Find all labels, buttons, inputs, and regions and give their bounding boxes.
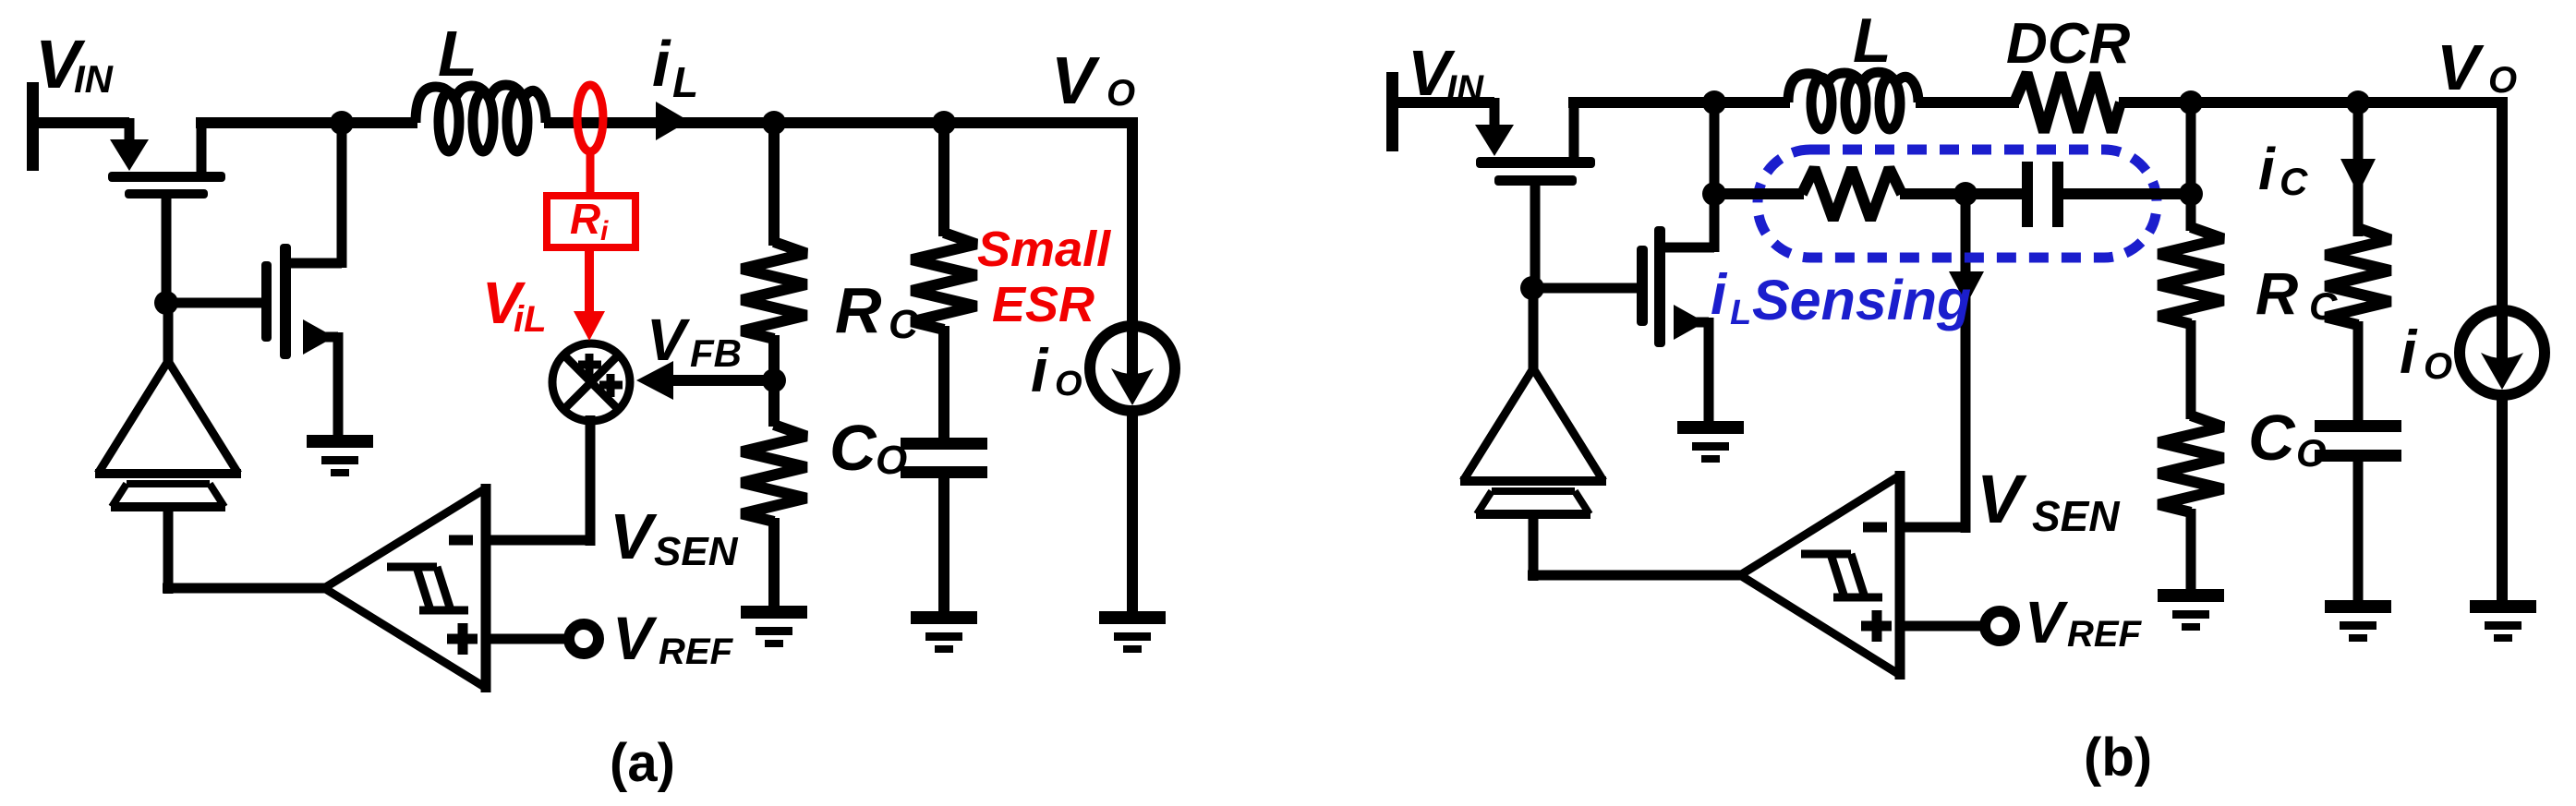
wire comparator out to driver (a) xyxy=(163,510,174,594)
ground NMOS (a) xyxy=(307,435,373,476)
wire RC branch top (b) xyxy=(2353,102,2364,236)
inductor L (a) xyxy=(416,85,546,151)
arrow iL on rail (a) xyxy=(656,102,689,140)
wire NMOS gate (a) xyxy=(166,298,266,308)
svg-text:Small: Small xyxy=(977,222,1111,277)
svg-text:(a): (a) xyxy=(610,733,675,793)
arrow NMOS source (b) xyxy=(1674,305,1705,340)
svg-text:V: V xyxy=(612,604,658,672)
svg-text:i: i xyxy=(2258,136,2276,202)
node RC branch junction (a) xyxy=(932,111,956,135)
wire minus input (a) xyxy=(481,535,590,546)
svg-text:O: O xyxy=(1055,365,1082,403)
node sense VSEN junction (b) xyxy=(1953,182,1977,206)
transistor M1 PMOS (b) xyxy=(1476,157,1595,186)
wire switch rail left (a) xyxy=(196,117,417,128)
inductor L (b) xyxy=(1788,72,1918,129)
node sense to divider junction (b) xyxy=(2179,182,2203,206)
wire driver output up to gate node (b) xyxy=(1529,292,1539,371)
wire plus input to VREF (a) xyxy=(481,634,565,644)
wire VIN to switch (b) xyxy=(1397,97,1494,108)
current source iO (b) xyxy=(2460,310,2545,395)
svg-text:FB: FB xyxy=(690,331,742,375)
terminal VREF (b) xyxy=(1985,611,2014,641)
wire sense right (b) xyxy=(2062,188,2191,199)
node VIN terminal (b) xyxy=(1386,72,1398,151)
svg-text:C: C xyxy=(2280,160,2308,203)
svg-text:L: L xyxy=(672,58,698,106)
svg-text:DCR: DCR xyxy=(2006,12,2131,76)
resistor DCR (b) xyxy=(2014,73,2121,132)
svg-text:O: O xyxy=(2424,346,2452,387)
red sense Ri box (a) xyxy=(547,196,635,247)
svg-text:V: V xyxy=(2437,31,2485,103)
svg-text:REF: REF xyxy=(2067,614,2143,655)
wire VO corner down (a) xyxy=(1127,117,1138,328)
wire driver output up to gate node (a) xyxy=(163,307,174,364)
wire PMOS drain riser (b) xyxy=(1569,102,1579,160)
svg-text:O: O xyxy=(2296,431,2327,475)
transistor M2 NMOS (b) xyxy=(1637,226,1665,347)
svg-text:V: V xyxy=(1051,44,1101,118)
red arrow ViL to summer (a) xyxy=(585,246,594,319)
svg-text:V: V xyxy=(2025,589,2069,656)
wire minus input (b) xyxy=(1895,523,1965,533)
node switch junction (b) xyxy=(1702,90,1726,114)
ground divider (b) xyxy=(2158,589,2224,631)
svg-text:O: O xyxy=(1107,73,1135,114)
wire iO to ground (b) xyxy=(2497,393,2508,602)
node sense branch junction (b) xyxy=(1702,182,1726,206)
svg-text:L: L xyxy=(1853,6,1892,76)
ground CO (a) xyxy=(911,611,977,653)
arrow iL sensing direction (b) xyxy=(1949,271,1984,305)
resistor R2 divider (a) xyxy=(742,425,806,522)
wire PMOS gate down (a) xyxy=(162,198,172,303)
svg-text:SEN: SEN xyxy=(654,529,739,574)
svg-text:C: C xyxy=(2248,402,2296,474)
capacitor sense C (b) xyxy=(2022,162,2063,227)
arrow iC (b) xyxy=(2340,159,2376,194)
svg-text:R: R xyxy=(570,195,600,243)
wire iO to ground (a) xyxy=(1127,409,1138,613)
wire switch rail right (a) xyxy=(544,117,1138,128)
wire comparator out to driver (b) xyxy=(1529,517,1539,581)
node divider junction (b) xyxy=(2179,90,2203,114)
wire PMOS gate down (b) xyxy=(1530,186,1541,288)
arrow into PMOS source (b) xyxy=(1475,125,1514,156)
node gate node (b) xyxy=(1520,276,1544,300)
svg-text:i: i xyxy=(600,216,609,247)
svg-text:Sensing: Sensing xyxy=(1752,269,1971,331)
wire NMOS drain (a) xyxy=(285,259,342,269)
svg-text:IN: IN xyxy=(74,57,115,101)
svg-text:R: R xyxy=(835,274,882,346)
svg-text:REF: REF xyxy=(659,632,734,672)
arrow into PMOS source (a) xyxy=(110,139,149,171)
wire sense left (b) xyxy=(1714,188,1804,199)
svg-text:C: C xyxy=(2309,284,2338,328)
wire VO corner down (b) xyxy=(2497,97,2508,314)
svg-text:iL: iL xyxy=(514,299,547,340)
terminal VREF (a) xyxy=(569,624,599,654)
wire switch node down (b) xyxy=(1710,102,1720,252)
svg-text:O: O xyxy=(876,438,907,483)
driver buffer U1 (a) xyxy=(95,361,241,507)
comparator U2 (b) xyxy=(1740,471,1900,680)
resistor R1 divider (a) xyxy=(742,242,806,339)
wire divider branch upper (b) xyxy=(2186,102,2196,231)
ground iO (b) xyxy=(2470,600,2536,642)
svg-text:V: V xyxy=(1977,461,2027,537)
svg-text:(b): (b) xyxy=(2084,728,2152,788)
resistor divider lower (b) xyxy=(2159,415,2223,512)
svg-text:ESR: ESR xyxy=(992,277,1094,332)
node switch-NMOS junction (a) xyxy=(330,111,354,135)
node gate node (a) xyxy=(154,291,178,315)
blue dashed iL sensing outline (b) xyxy=(1758,150,2157,258)
svg-text:L: L xyxy=(1730,294,1751,332)
wire NMOS gate (b) xyxy=(1532,283,1641,294)
svg-text:C: C xyxy=(889,302,919,347)
svg-text:i: i xyxy=(1711,263,1728,327)
wire rail L to DCR (b) xyxy=(1916,97,2019,108)
wire NMOS source (b) xyxy=(1679,318,1709,328)
svg-text:V: V xyxy=(647,307,691,373)
svg-text:V: V xyxy=(610,500,658,572)
svg-text:L: L xyxy=(438,18,478,90)
svg-text:SEN: SEN xyxy=(2032,492,2120,540)
svg-text:i: i xyxy=(2400,318,2418,386)
ground iO (a) xyxy=(1099,611,1166,653)
svg-text:R: R xyxy=(2256,260,2298,327)
node VFB junction (a) xyxy=(768,335,780,427)
svg-text:i: i xyxy=(652,28,671,100)
comparator U2 (a) xyxy=(324,484,486,692)
node divider tap junction (a) xyxy=(762,111,786,135)
ground NMOS (b) xyxy=(1677,421,1744,463)
current source iO (a) xyxy=(1090,326,1175,411)
arrow VFB into summer (a) xyxy=(669,375,774,386)
node RC junction (b) xyxy=(2346,90,2370,114)
resistor RC (b) xyxy=(2326,228,2390,325)
svg-text:C: C xyxy=(829,412,877,484)
wire sense mid (b) xyxy=(1900,188,2025,199)
transistor M1 PMOS (a) xyxy=(108,172,225,198)
capacitor CO (a) xyxy=(901,438,987,478)
transistor M2 NMOS (a) xyxy=(261,244,291,359)
summer S1 (a) xyxy=(552,343,630,421)
arrow NMOS source (a) xyxy=(303,319,334,355)
wire PMOS drain riser (a) xyxy=(197,123,207,174)
wire rail DCR to VO (b) xyxy=(2119,97,2508,108)
wire VIN to switch (a) xyxy=(37,117,129,128)
svg-text:O: O xyxy=(2488,60,2517,101)
capacitor CO (b) xyxy=(2315,420,2401,462)
svg-text:i: i xyxy=(1031,336,1049,404)
wire NMOS drain (b) xyxy=(1660,243,1714,253)
wire plus input to VREF (b) xyxy=(1895,621,1981,632)
resistor sense R (b) xyxy=(1802,168,1902,220)
ground divider (a) xyxy=(741,606,807,647)
wire NMOS source (a) xyxy=(305,332,338,343)
wire switch rail left (b) xyxy=(1568,97,1790,108)
driver buffer U1 (b) xyxy=(1460,368,1606,514)
resistor divider upper (b) xyxy=(2159,227,2223,324)
current probe ellipse (a) xyxy=(577,85,603,151)
node VIN terminal (a) xyxy=(27,82,39,171)
ground CO (b) xyxy=(2325,600,2391,642)
resistor RC esr (a) xyxy=(912,233,976,330)
